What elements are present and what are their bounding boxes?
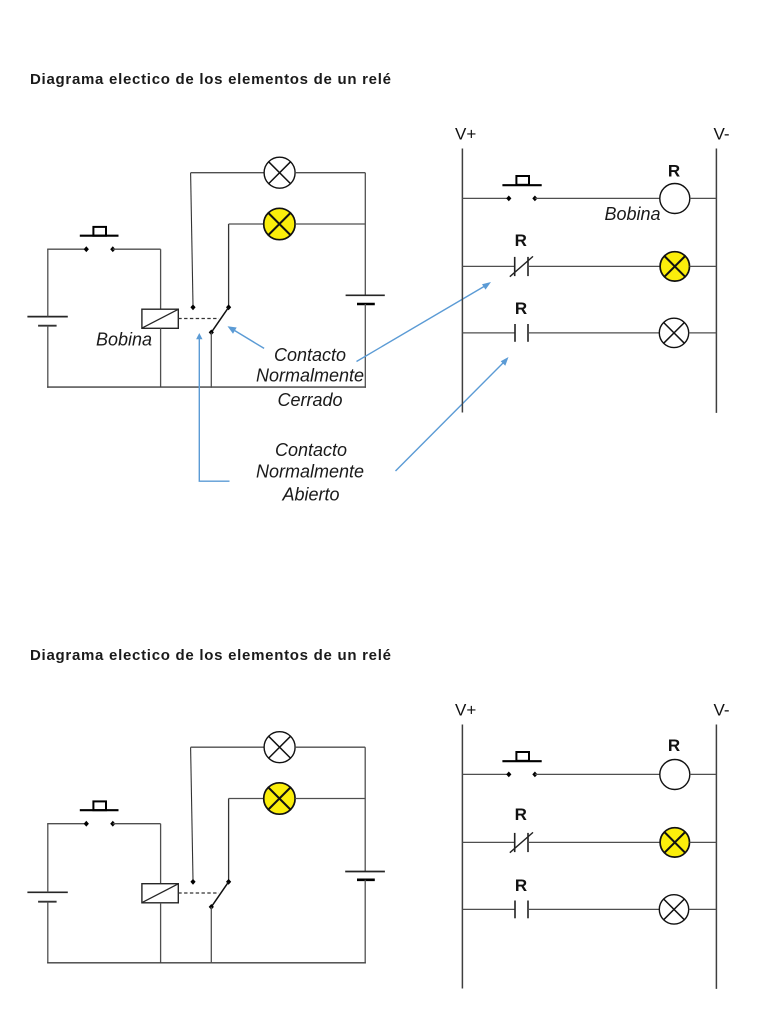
- junction node right of push button S2: [110, 821, 115, 827]
- rung 2 lamp cross: [664, 256, 685, 277]
- svg-text:Normalmente: Normalmente: [256, 462, 364, 482]
- wire top-right horizontal: [113, 248, 161, 250]
- svg-text:Cerrado: Cerrado: [277, 390, 342, 410]
- rung 2 lamp (yellow, lit): [660, 252, 689, 281]
- svg-text:Bobina: Bobina: [96, 330, 152, 350]
- wire lamp L2 to right vertical: [295, 223, 365, 225]
- lamp L3 (white): [264, 732, 295, 763]
- NC contact R bar 2: [527, 833, 529, 852]
- NO contact R bar 2: [527, 901, 529, 919]
- wire lamp L1 to right branch: [295, 172, 365, 174]
- NC contact node: [226, 879, 231, 885]
- wire right vertical to battery B2: [364, 173, 366, 296]
- rung 3 wire lamp to V-: [689, 908, 717, 910]
- svg-text:Normalmente: Normalmente: [256, 366, 364, 386]
- arrow: Cerrado label to NC contact arm: [228, 326, 265, 348]
- wire to lamp L2 (left): [229, 223, 264, 225]
- arrow: Abierto label to ladder NO contact: [396, 357, 509, 471]
- wire battery B3 to push button: [47, 824, 49, 893]
- wire battery B3 to bottom rail: [47, 902, 49, 964]
- relay coil K1 diagonal: [143, 310, 178, 328]
- rung 1 node left of push button: [506, 772, 511, 778]
- wire battery B4 to bottom rail: [364, 880, 366, 964]
- rung 3 lamp cross: [664, 323, 685, 344]
- wire right vertical to battery B4: [364, 747, 366, 871]
- NC contact R bar 1: [514, 833, 516, 852]
- lamp L4 cross: [268, 788, 290, 810]
- svg-text:Abierto: Abierto: [281, 485, 339, 505]
- lamp L3 cross: [269, 736, 291, 758]
- NO contact node: [190, 304, 195, 310]
- relay coil K1 box: [142, 309, 178, 328]
- mechanical link dashed line from K1 to contact arm: [178, 318, 219, 320]
- rung 1 wire coil to V-: [690, 773, 717, 775]
- wire lamp L4 to right vertical: [295, 798, 365, 800]
- lamp L1 cross: [269, 162, 291, 184]
- wire to lamp L4 (left): [229, 798, 264, 800]
- wire down to relay coil K1: [160, 249, 162, 309]
- svg-text:R: R: [515, 876, 527, 895]
- NC contact slash: [510, 256, 533, 276]
- rung 3 lamp (white): [659, 318, 688, 347]
- rung 3 lamp (white): [659, 895, 688, 924]
- rung 1 node left of push button: [506, 196, 511, 202]
- bottom wire: [47, 386, 366, 388]
- svg-text:Contacto: Contacto: [274, 345, 346, 365]
- NC contact R bar 2: [527, 257, 529, 276]
- right rail V-: [715, 149, 717, 413]
- right rail V-: [715, 725, 717, 989]
- common contact node: [209, 904, 214, 910]
- rung 2 wire lamp to V-: [690, 265, 717, 267]
- rung 3 wire to white lamp: [528, 332, 659, 334]
- rung 1 wire coil to V-: [690, 197, 717, 199]
- battery B1 long plate: [27, 316, 67, 318]
- wire top-left horizontal: [47, 248, 86, 250]
- lamp L2 cross: [268, 213, 290, 235]
- wire top-right horizontal: [113, 823, 161, 825]
- rung 2 lamp cross: [664, 832, 685, 853]
- svg-text:R: R: [668, 162, 680, 181]
- rung 2 wire to yellow lamp: [528, 841, 660, 843]
- wire lamp L3 branch down to NO contact (slight slant): [191, 747, 193, 879]
- wire lamp L2 branch down to NC contact: [228, 224, 230, 306]
- wire battery B1 to bottom rail: [47, 326, 49, 388]
- battery B2 long plate: [346, 294, 385, 296]
- rung 2 lamp (yellow, lit): [660, 828, 689, 857]
- svg-text:V-: V-: [714, 125, 730, 144]
- svg-text:V-: V-: [714, 701, 730, 720]
- wire relay coil K2 to bottom rail: [160, 903, 162, 963]
- rung 1 wire from V+: [462, 773, 508, 775]
- wire lamp L1 branch down to NO contact (slight slant): [191, 173, 193, 305]
- common contact node: [209, 330, 214, 336]
- switch arm (common to NC): [211, 307, 228, 332]
- bottom wire: [47, 962, 366, 964]
- lamp L4 (yellow, lit): [264, 783, 295, 814]
- wire relay coil K1 to bottom rail: [160, 328, 162, 387]
- rung 1 node right of push button: [532, 196, 537, 202]
- wire common contact to bottom rail: [210, 907, 212, 964]
- battery B1 short plate: [38, 325, 57, 327]
- mechanical link dashed line from K2: [178, 892, 219, 894]
- battery B2 short plate: [357, 303, 375, 306]
- rung 2 wire from V+: [462, 265, 514, 267]
- arrow: Cerrado label to ladder NC contact: [357, 282, 492, 362]
- junction node left of push button S1: [84, 246, 89, 252]
- svg-text:R: R: [515, 231, 527, 250]
- svg-text:Bobina: Bobina: [604, 204, 660, 224]
- push button S1 cap: [93, 227, 106, 236]
- svg-text:Diagrama electico de los eleme: Diagrama electico de los elementos de un…: [30, 71, 392, 88]
- lamp L1 (white): [264, 157, 295, 188]
- svg-text:R: R: [515, 805, 527, 824]
- wire top-left horizontal: [47, 823, 86, 825]
- rung 1 push button bar: [502, 760, 541, 762]
- wire battery B1 to push button (left vertical): [47, 249, 49, 316]
- push button S2 bar: [80, 809, 119, 811]
- battery B4 short plate: [357, 878, 375, 881]
- rung 2 wire from V+: [462, 841, 514, 843]
- NC contact R bar 1: [514, 257, 516, 276]
- rung 3 wire from V+: [462, 908, 515, 910]
- relay coil K2 box: [142, 884, 178, 903]
- wire common contact to bottom rail: [210, 332, 212, 387]
- lamp L2 (yellow, lit): [264, 208, 295, 239]
- wire lamp L3 to right branch: [295, 746, 365, 748]
- relay coil R (circle): [660, 760, 690, 790]
- NO contact R bar 2: [527, 324, 529, 342]
- rung 1 node right of push button: [532, 772, 537, 778]
- svg-text:Diagrama electico de los eleme: Diagrama electico de los elementos de un…: [30, 647, 392, 664]
- switch arm (common to NC): [211, 882, 228, 907]
- wire battery B2 to bottom rail: [364, 304, 366, 388]
- svg-text:Contacto: Contacto: [275, 440, 347, 460]
- arrow: Abierto label to NO contact (elbow): [196, 333, 229, 481]
- NO contact R bar 1: [514, 324, 516, 342]
- battery B3 long plate: [27, 891, 67, 893]
- wire to lamp L1 (left): [191, 172, 265, 174]
- rung 3 wire to white lamp: [528, 908, 659, 910]
- rung 3 wire lamp to V-: [689, 332, 717, 334]
- rung 1 push button cap: [516, 176, 529, 185]
- left rail V+: [461, 149, 463, 413]
- junction node right of push button S1: [110, 246, 115, 252]
- push button S2 cap: [93, 801, 106, 810]
- rung 2 wire lamp to V-: [690, 841, 717, 843]
- wire lamp L4 branch down to NC contact: [228, 799, 230, 881]
- rung 3 wire from V+: [462, 332, 515, 334]
- battery B4 long plate: [345, 871, 385, 873]
- junction node left of push button S2: [84, 821, 89, 827]
- wire down to relay coil K2: [160, 824, 162, 884]
- svg-text:V+: V+: [455, 125, 476, 144]
- battery B3 short plate: [38, 901, 57, 903]
- wire to lamp L3 (left): [191, 746, 265, 748]
- svg-text:R: R: [515, 299, 527, 318]
- svg-text:R: R: [668, 736, 680, 755]
- NO contact R bar 1: [514, 901, 516, 919]
- left rail V+: [461, 725, 463, 989]
- NC contact node: [226, 304, 231, 310]
- rung 1 push button bar: [502, 184, 541, 186]
- relay coil R (circle): [660, 184, 690, 214]
- NO contact node: [190, 879, 195, 885]
- svg-text:V+: V+: [455, 701, 476, 720]
- push button S1 bar: [80, 235, 119, 237]
- relay coil K2 diagonal: [143, 884, 178, 902]
- NC contact slash: [510, 832, 533, 852]
- rung 1 wire to relay coil R: [535, 197, 660, 199]
- rung 1 wire from V+: [462, 197, 508, 199]
- rung 1 push button cap: [516, 752, 529, 761]
- rung 3 lamp cross: [664, 899, 685, 920]
- rung 1 wire to relay coil R: [535, 773, 660, 775]
- rung 2 wire to yellow lamp: [528, 265, 660, 267]
